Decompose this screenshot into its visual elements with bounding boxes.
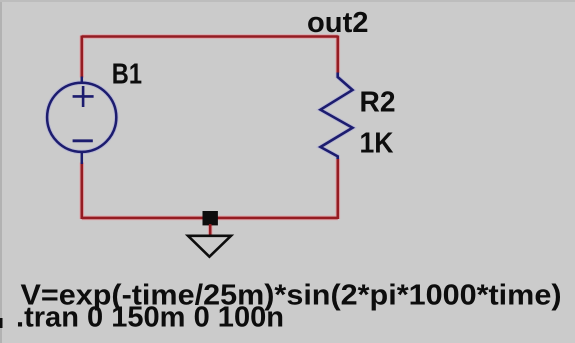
- junction square node: [203, 211, 218, 225]
- resistor R2 body: [321, 73, 353, 160]
- wire left upper halo: [80, 36, 85, 78]
- ground symbol triangle: [188, 236, 231, 257]
- svg-text:out2: out2: [307, 7, 369, 39]
- wire right lower: [336, 159, 339, 220]
- wire right upper: [336, 36, 339, 74]
- ground lead stub halo: [208, 224, 213, 236]
- left edge cursor mark: [0, 318, 3, 328]
- wire bottom halo: [82, 216, 338, 221]
- wire halos: [82, 36, 338, 237]
- component halos: [47, 73, 352, 160]
- wire bottom: [82, 217, 338, 220]
- svg-text:.tran 0 150m 0 100n: .tran 0 150m 0 100n: [16, 302, 284, 334]
- wire right upper halo: [335, 36, 340, 74]
- voltage source B1 bottom pin stub: [81, 151, 84, 164]
- B1 plus sign: [73, 86, 94, 107]
- svg-text:B1: B1: [112, 59, 142, 91]
- resistor body halo: [321, 73, 353, 160]
- wire right lower halo: [335, 159, 340, 220]
- svg-text:1K: 1K: [360, 127, 394, 159]
- voltage source B1 circle: [47, 83, 116, 152]
- wire top halo: [82, 34, 338, 39]
- wire left lower: [81, 163, 84, 220]
- wire top: [82, 35, 338, 38]
- wire left upper: [81, 36, 84, 78]
- ground lead stub: [209, 224, 212, 236]
- wire left lower halo: [80, 163, 85, 220]
- page edge shading left: [0, 0, 2, 343]
- svg-text:R2: R2: [360, 87, 396, 119]
- voltage source B1 top pin stub: [81, 77, 84, 85]
- page edge shading top: [0, 0, 575, 2]
- B1 minus sign: [73, 139, 93, 142]
- B1 circle halo: [47, 83, 116, 152]
